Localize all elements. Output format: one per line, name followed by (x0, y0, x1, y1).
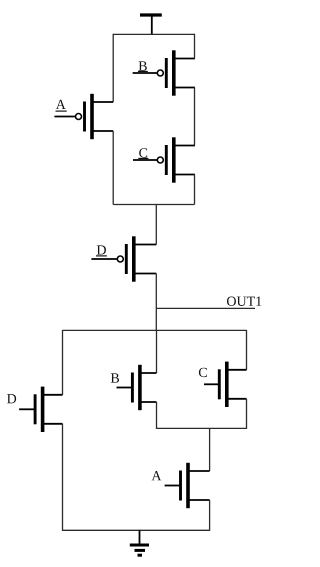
wire: PMOS network bottom rail (113, 204, 194, 206)
nmos B label (111, 373, 119, 382)
pmos transistor D (91, 236, 156, 281)
pmos D label (96, 245, 107, 256)
wire: right vertical VDD to PMOS B source (194, 34, 196, 59)
nmos transistor B (117, 365, 157, 410)
wire: rail down to NMOS C drain (246, 330, 248, 370)
wire: PMOS C drain down (194, 175, 196, 205)
wire: ground rail (63, 529, 210, 531)
wire: NMOS B source down (156, 402, 158, 429)
wire: internal node down to PMOS D source (155, 205, 157, 245)
wire: PMOS D drain down to output node (155, 274, 157, 309)
wire: B and C sources junction rail (157, 427, 247, 429)
nmos D label (7, 394, 16, 403)
wire: rail down to NMOS D drain (62, 330, 64, 395)
nmos A label (152, 471, 162, 480)
wire: PMOS B drain to PMOS C source (194, 88, 196, 146)
wire: NMOS network top rail (63, 329, 247, 331)
wire: NMOS D source down to ground rail (62, 424, 64, 531)
wire: junction down to NMOS A drain (209, 428, 211, 471)
wire: VDD rail horizontal (113, 33, 194, 35)
wire: output node down to NMOS rail (155, 308, 157, 330)
nmos transistor A (165, 463, 210, 508)
ground symbol (130, 530, 149, 555)
pmos transistor A (54, 94, 113, 139)
pmos A label (56, 100, 67, 111)
wire: rail down to NMOS B drain (156, 330, 158, 373)
nmos transistor D (19, 387, 62, 432)
VDD power symbol (140, 15, 162, 34)
nmos C label (199, 368, 207, 377)
wire: PMOS A drain down to internal node (112, 131, 114, 205)
wire: left vertical VDD to PMOS A source (112, 34, 114, 102)
pmos B label (138, 61, 148, 71)
wire: NMOS C source down (246, 399, 248, 429)
nmos transistor C (204, 362, 247, 407)
node OUT1 label (227, 297, 261, 306)
pmos C label (138, 148, 148, 158)
wire: NMOS A source down to ground rail (209, 500, 211, 531)
pmos transistor C (133, 137, 195, 182)
pmos transistor B (133, 50, 195, 95)
wire: OUT1 stub (156, 307, 255, 309)
